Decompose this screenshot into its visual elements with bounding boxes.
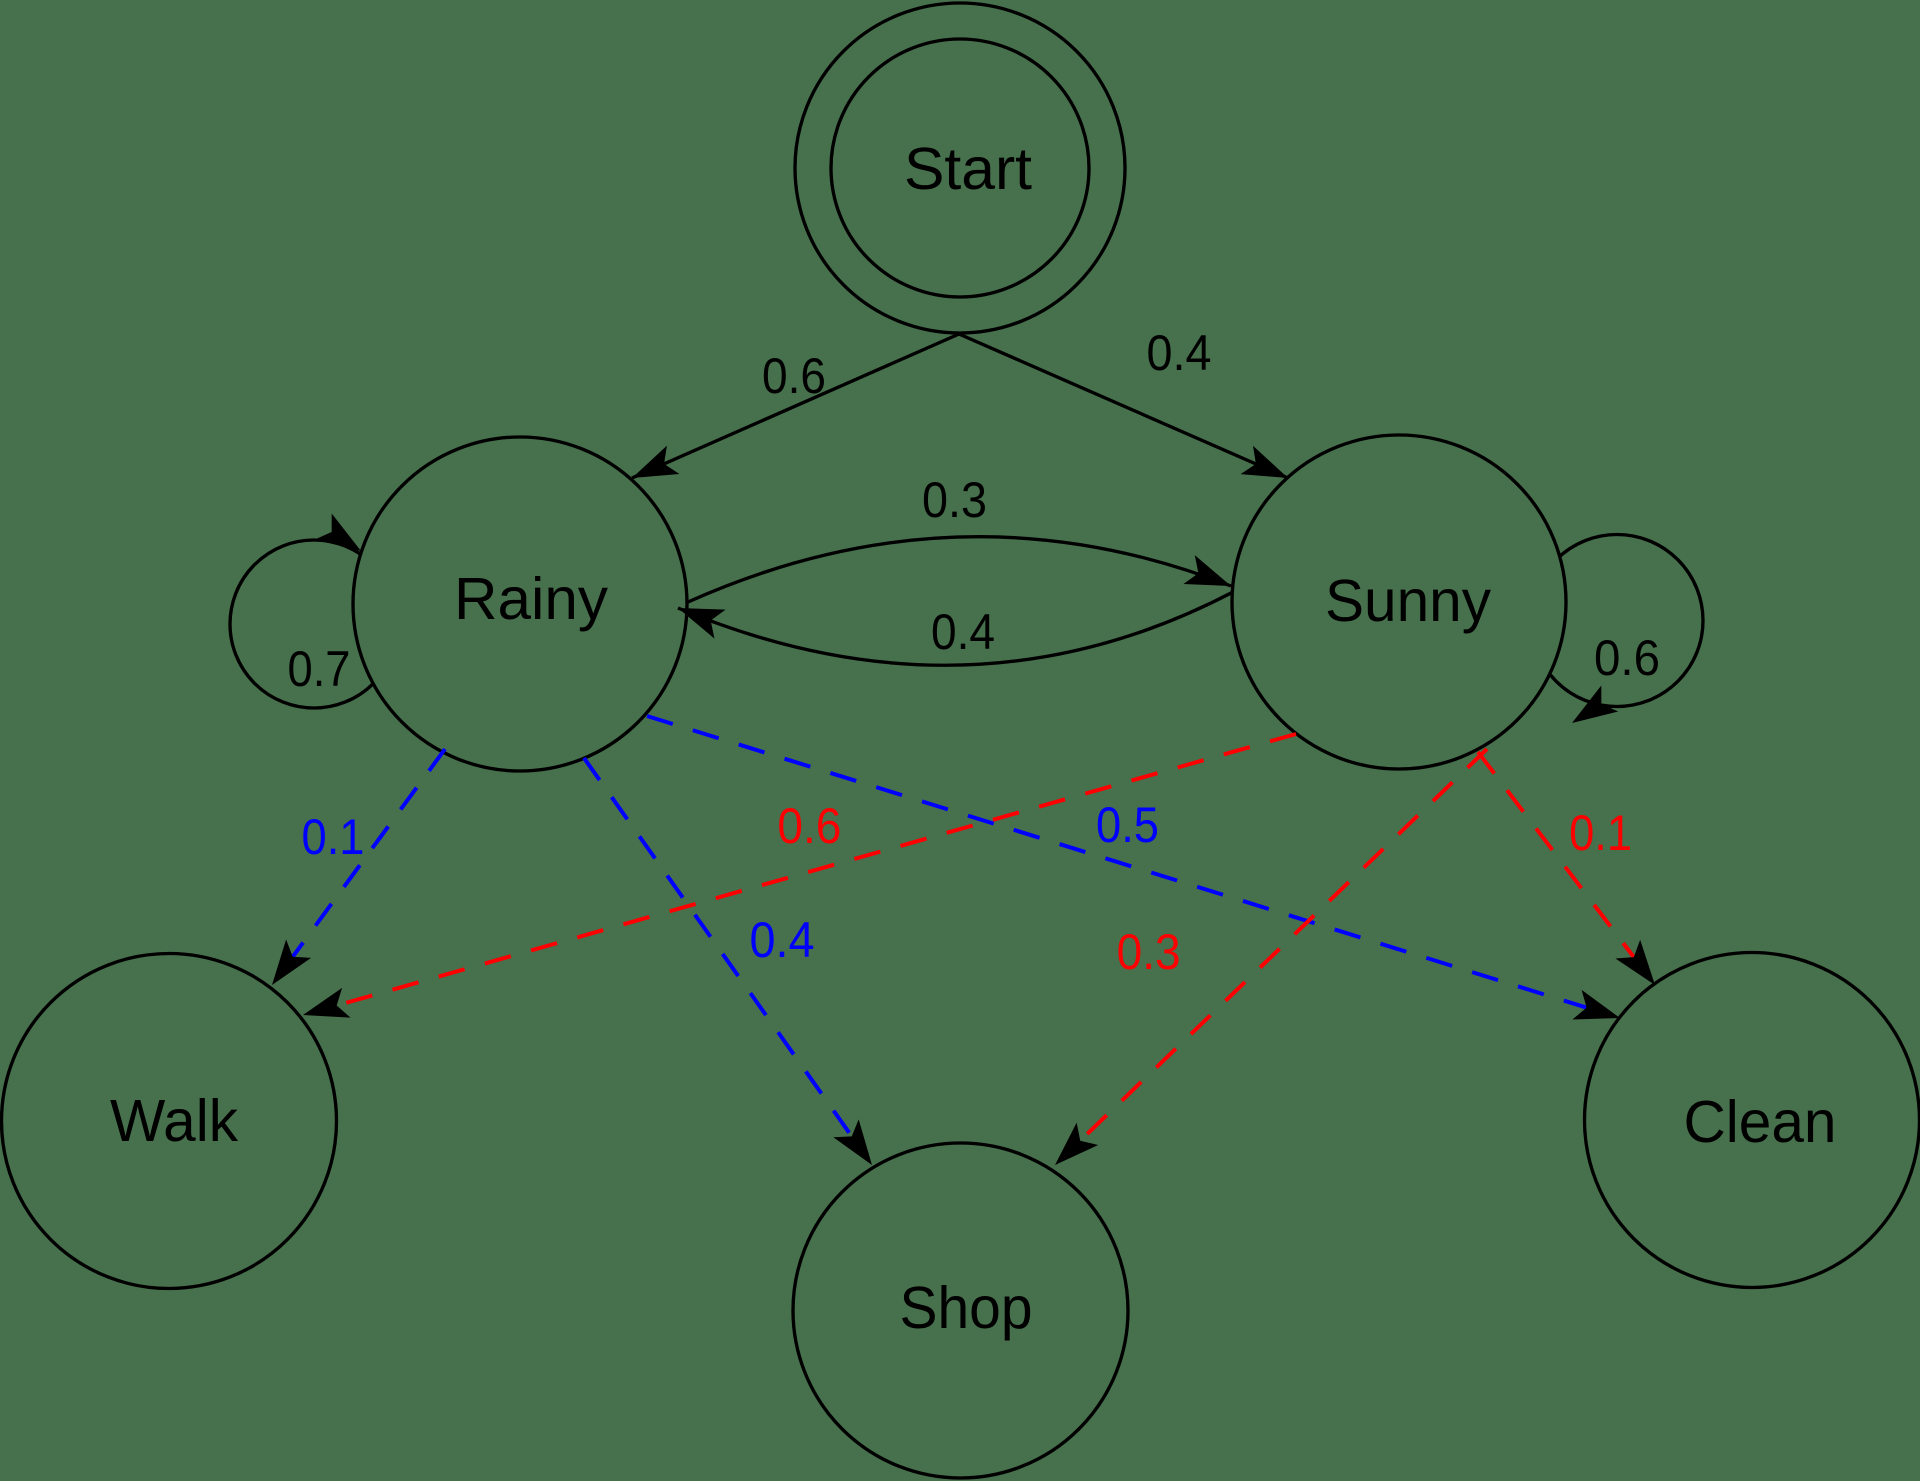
node Start (outer circle): [795, 3, 1125, 333]
svg-text:0.6: 0.6: [1594, 630, 1660, 686]
edge Start to Rainy (0.6): [632, 334, 959, 478]
svg-text:Rainy: Rainy: [454, 566, 609, 632]
node Rainy: [353, 437, 687, 771]
edge Rainy to Shop (0.4) dashed blue: [584, 758, 855, 1141]
edge Start to Sunny (0.4): [959, 334, 1288, 478]
edge Sunny to Walk (0.6) dashed red: [332, 734, 1296, 1007]
edge Sunny to Clean (0.1) dashed red: [1478, 752, 1637, 961]
svg-text:0.4: 0.4: [931, 604, 995, 660]
node Sunny: [1232, 435, 1566, 769]
arrowhead of Rainy self-loop: [315, 513, 370, 564]
svg-text:0.6: 0.6: [777, 798, 841, 854]
svg-text:Walk: Walk: [110, 1088, 238, 1154]
svg-text:0.4: 0.4: [750, 912, 815, 968]
edge Rainy to Sunny (0.3) curved: [688, 537, 1231, 602]
node Shop: [793, 1143, 1128, 1478]
svg-text:Start: Start: [904, 136, 1032, 202]
self-loop on Rainy (0.7): [230, 540, 398, 708]
edge Rainy to Walk (0.1) dashed blue: [290, 749, 445, 961]
svg-text:0.7: 0.7: [288, 641, 351, 697]
svg-text:0.1: 0.1: [1569, 805, 1632, 861]
self-loop on Sunny (0.6): [1531, 535, 1703, 707]
svg-text:Clean: Clean: [1684, 1089, 1837, 1155]
svg-text:0.1: 0.1: [302, 809, 365, 865]
svg-text:0.6: 0.6: [762, 348, 826, 404]
svg-text:Sunny: Sunny: [1325, 568, 1491, 634]
svg-text:0.5: 0.5: [1096, 797, 1159, 853]
svg-text:0.3: 0.3: [922, 472, 987, 528]
svg-text:0.4: 0.4: [1147, 325, 1212, 381]
edge Rainy to Clean (0.5) dashed blue: [647, 716, 1591, 1009]
arrowhead of Sunny self-loop: [1564, 685, 1619, 736]
edge Sunny to Rainy (0.4) curved: [678, 592, 1233, 665]
node Walk: [2, 954, 337, 1289]
svg-text:Shop: Shop: [900, 1275, 1033, 1341]
svg-text:0.3: 0.3: [1117, 924, 1181, 980]
node Clean: [1585, 953, 1920, 1288]
edge Sunny to Shop (0.3) dashed red: [1077, 749, 1487, 1144]
node Start (inner circle): [831, 39, 1089, 297]
